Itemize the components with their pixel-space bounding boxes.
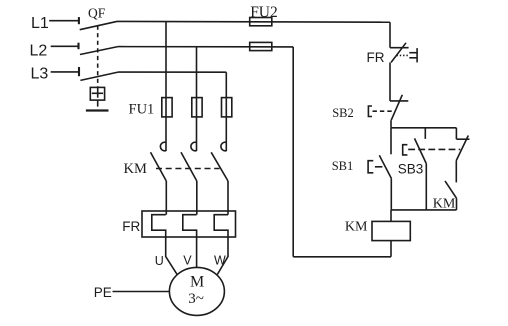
svg-text:PE: PE — [94, 285, 112, 300]
svg-text:KM: KM — [345, 219, 368, 234]
svg-text:FU1: FU1 — [129, 102, 155, 118]
svg-text:SB1: SB1 — [332, 159, 354, 173]
svg-text:L1: L1 — [31, 15, 49, 32]
svg-text:KM: KM — [124, 161, 147, 177]
svg-text:FR: FR — [122, 219, 140, 234]
svg-text:L3: L3 — [31, 65, 49, 82]
svg-text:V: V — [183, 254, 192, 268]
svg-text:QF: QF — [88, 5, 106, 20]
svg-text:L2: L2 — [30, 43, 48, 60]
svg-text:U: U — [155, 254, 164, 268]
svg-text:M: M — [190, 274, 204, 291]
svg-text:3~: 3~ — [188, 291, 204, 307]
svg-text:SB3: SB3 — [398, 161, 424, 176]
svg-text:FU2: FU2 — [250, 4, 278, 21]
svg-text:W: W — [214, 254, 226, 268]
svg-text:FR: FR — [367, 50, 385, 65]
svg-text:KM: KM — [433, 197, 456, 212]
svg-text:SB2: SB2 — [332, 106, 354, 120]
